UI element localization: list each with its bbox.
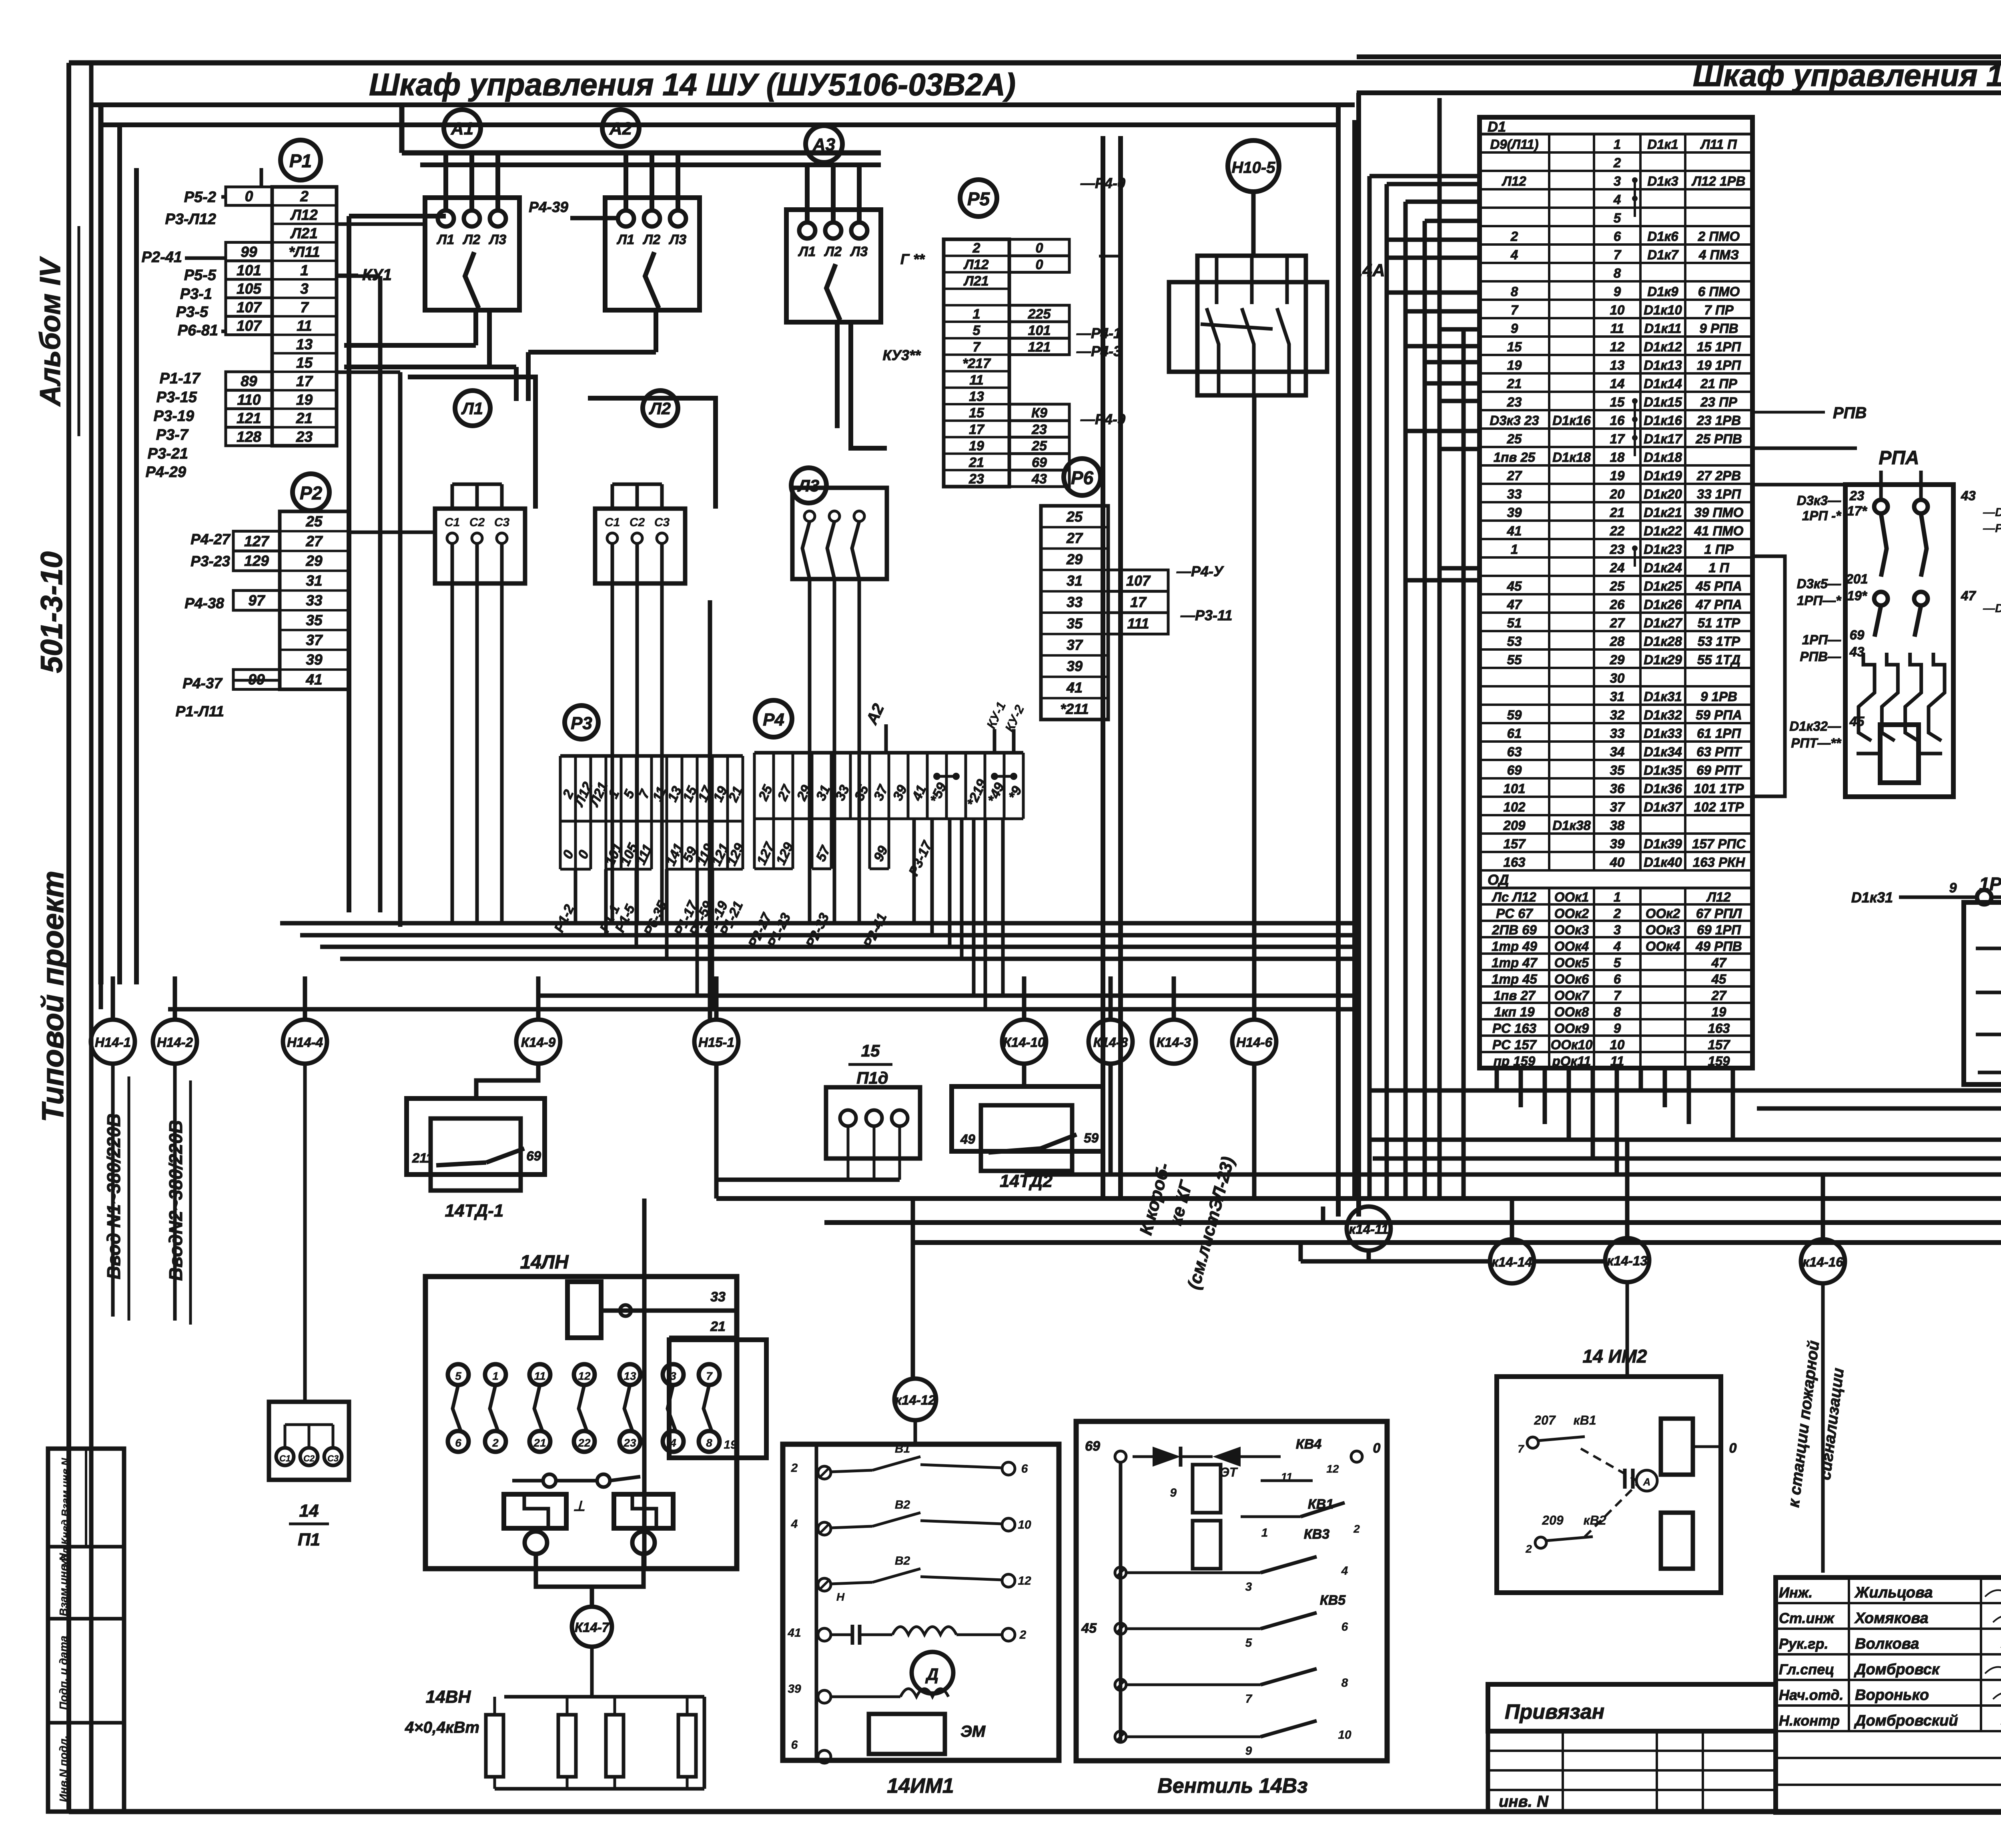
actuator 14IM1 [783, 1420, 1059, 1798]
svg-text:⊥: ⊥ [573, 1499, 585, 1514]
svg-text:РПТ—**: РПТ—** [1791, 736, 1842, 750]
svg-text:25: 25 [1610, 579, 1625, 593]
svg-text:ОД: ОД [1488, 872, 1509, 888]
svg-text:4: 4 [1613, 939, 1621, 954]
svg-text:ООк2: ООк2 [1646, 906, 1680, 921]
svg-text:15: 15 [296, 355, 313, 371]
svg-text:D1к34: D1к34 [1644, 744, 1682, 759]
svg-text:Ст.инж: Ст.инж [1779, 1610, 1835, 1626]
svg-text:19: 19 [1507, 358, 1522, 373]
lamp panel 14LN [425, 1199, 766, 1607]
svg-text:1: 1 [492, 1370, 499, 1382]
svg-text:Л11 П: Л11 П [1700, 137, 1737, 152]
svg-text:14ЛН: 14ЛН [520, 1252, 569, 1273]
svg-text:КВ3: КВ3 [1304, 1527, 1329, 1542]
svg-text:—D3к9: —D3к9 [1983, 506, 2001, 519]
svg-text:19: 19 [1610, 468, 1625, 483]
svg-text:69 РПТ: 69 РПТ [1696, 763, 1742, 778]
svg-text:Л1: Л1 [798, 244, 816, 259]
svg-text:33: 33 [1610, 726, 1625, 741]
svg-text:D1к24: D1к24 [1644, 560, 1682, 575]
svg-text:27: 27 [1066, 530, 1083, 546]
svg-text:1кп 19: 1кп 19 [1494, 1004, 1535, 1019]
connector P2 terminal table [233, 511, 349, 689]
svg-text:Р5-5: Р5-5 [184, 267, 217, 284]
svg-text:99: 99 [241, 244, 257, 260]
valve unit Ventil 14Vz [1076, 1421, 1387, 1798]
svg-text:19: 19 [969, 439, 984, 454]
svg-text:39: 39 [1610, 836, 1625, 851]
svg-text:61 1РП: 61 1РП [1697, 726, 1741, 741]
svg-text:К14-7: К14-7 [575, 1620, 610, 1635]
svg-text:21: 21 [968, 455, 984, 470]
svg-text:6: 6 [1614, 972, 1621, 986]
svg-text:207: 207 [1534, 1413, 1556, 1427]
svg-text:КУ3**: КУ3** [882, 347, 921, 363]
svg-text:51 1ТР: 51 1ТР [1698, 615, 1740, 630]
svg-text:Инж.: Инж. [1779, 1584, 1813, 1601]
svg-text:Н: Н [836, 1591, 845, 1603]
svg-text:ООк1: ООк1 [1554, 890, 1589, 904]
svg-text:*Л11: *Л11 [289, 244, 320, 260]
svg-text:Р3-Л12: Р3-Л12 [165, 211, 216, 228]
svg-text:12: 12 [1326, 1463, 1339, 1475]
svg-text:РПВ: РПВ [1833, 404, 1867, 422]
svg-text:55: 55 [1507, 652, 1522, 667]
svg-text:Привязан: Привязан [1505, 1700, 1604, 1724]
svg-text:157: 157 [1708, 1037, 1730, 1052]
svg-text:1 П: 1 П [1708, 560, 1730, 575]
svg-text:15: 15 [1610, 395, 1625, 409]
svg-text:36: 36 [1610, 781, 1625, 796]
svg-text:20: 20 [1610, 487, 1625, 501]
ammeter А2 [602, 110, 639, 146]
svg-text:С2: С2 [303, 1453, 315, 1463]
svg-text:7: 7 [300, 299, 309, 315]
svg-text:С2: С2 [469, 516, 485, 529]
svg-text:10: 10 [1610, 1037, 1625, 1052]
terminal Н14-1 [91, 1020, 135, 1064]
svg-text:D1к37: D1к37 [1644, 800, 1682, 814]
svg-text:1тр 49: 1тр 49 [1492, 939, 1537, 954]
svg-text:4: 4 [670, 1437, 676, 1449]
svg-text:D1к26: D1к26 [1644, 597, 1682, 612]
svg-text:С1: С1 [279, 1453, 291, 1463]
svg-text:Л12 1РВ: Л12 1РВ [1692, 174, 1746, 188]
svg-text:Л21: Л21 [290, 225, 318, 242]
svg-text:17*: 17* [1847, 503, 1868, 518]
svg-text:37: 37 [306, 632, 323, 648]
svg-text:—D1к25: —D1к25 [1983, 602, 2001, 615]
svg-text:107: 107 [237, 318, 262, 334]
svg-text:39: 39 [788, 1682, 801, 1696]
svg-text:Л2: Л2 [824, 244, 842, 259]
svg-text:31: 31 [1067, 573, 1083, 589]
svg-text:Р3-7: Р3-7 [156, 427, 189, 443]
svg-text:2: 2 [1019, 1628, 1027, 1642]
svg-text:РПА: РПА [1879, 447, 1919, 469]
svg-text:*211: *211 [1060, 701, 1089, 717]
signatures table [1776, 1577, 2001, 1812]
svg-text:21: 21 [533, 1437, 546, 1449]
svg-text:27 2РВ: 27 2РВ [1696, 468, 1741, 483]
svg-text:Хомякова: Хомякова [1854, 1610, 1929, 1627]
svg-text:89: 89 [241, 373, 257, 389]
svg-text:55 1ТД: 55 1ТД [1697, 652, 1740, 667]
svg-text:Вентиль 14Вз: Вентиль 14Вз [1157, 1774, 1307, 1798]
svg-text:3: 3 [1614, 174, 1621, 188]
svg-text:D1к29: D1к29 [1644, 652, 1682, 667]
svg-text:4×0,4кВт: 4×0,4кВт [405, 1719, 479, 1736]
svg-text:Р4-37: Р4-37 [182, 675, 223, 691]
svg-text:D1к28: D1к28 [1644, 634, 1682, 649]
horizontal bus lines [716, 1090, 2001, 1243]
svg-text:С1: С1 [445, 516, 460, 529]
svg-text:4 ПМЗ: 4 ПМЗ [1698, 247, 1739, 262]
actuator 14IM2 [1497, 1282, 1737, 1593]
terminal К14-3 [1152, 1020, 1196, 1064]
svg-text:41: 41 [1507, 523, 1522, 538]
svg-text:D1: D1 [1488, 118, 1506, 135]
privyazan box [1488, 1684, 1776, 1812]
svg-text:31: 31 [306, 573, 322, 589]
svg-text:1: 1 [1614, 890, 1621, 904]
svg-text:27: 27 [1711, 988, 1727, 1003]
svg-text:32: 32 [1610, 708, 1625, 722]
svg-text:2: 2 [1510, 229, 1518, 244]
svg-text:D1к38: D1к38 [1552, 818, 1591, 833]
svg-text:D1к23: D1к23 [1644, 542, 1682, 557]
contactor box under A2 [529, 153, 700, 310]
svg-text:5: 5 [1614, 210, 1621, 225]
svg-text:15 1РП: 15 1РП [1697, 339, 1741, 354]
svg-text:63: 63 [1507, 744, 1522, 759]
connector D1 table [1480, 117, 1752, 1068]
connector P6 circle [1064, 459, 1101, 495]
lamp Л2 [643, 391, 678, 426]
svg-text:1: 1 [300, 262, 309, 279]
svg-text:110: 110 [237, 391, 261, 408]
svg-text:7 ПР: 7 ПР [1704, 303, 1734, 317]
svg-text:13: 13 [1610, 358, 1625, 373]
svg-text:КВ5: КВ5 [1320, 1593, 1346, 1608]
terminal block 14/P1 [269, 1064, 349, 1549]
svg-text:19: 19 [1712, 1004, 1726, 1019]
svg-text:19*: 19* [1847, 588, 1868, 603]
svg-text:0: 0 [1729, 1441, 1737, 1456]
svg-text:Р4: Р4 [763, 710, 784, 730]
svg-text:ООк8: ООк8 [1554, 1004, 1589, 1019]
svg-text:17: 17 [296, 373, 314, 389]
svg-text:к14-13: к14-13 [1607, 1253, 1647, 1268]
svg-text:D1к35: D1к35 [1644, 763, 1682, 778]
svg-text:7: 7 [1518, 1443, 1524, 1455]
wire drops below D1 [1497, 1068, 1733, 1175]
svg-text:9: 9 [1614, 1021, 1621, 1036]
svg-text:D1к39: D1к39 [1644, 836, 1682, 851]
svg-text:Р3: Р3 [571, 714, 592, 733]
svg-text:3: 3 [300, 281, 309, 297]
header cabinet 14ShA [1357, 57, 2001, 93]
svg-text:23: 23 [968, 471, 984, 487]
svg-text:Шкаф управления 14 ША ( ШР 1: Шкаф управления 14 ША ( ШР 1108-67) [1693, 58, 2001, 93]
svg-text:37: 37 [1610, 800, 1625, 814]
svg-text:к14-12: к14-12 [895, 1393, 936, 1407]
terminal N10-5 [1228, 140, 1279, 192]
temperature switch 14TD-1 [407, 1064, 545, 1221]
svg-text:11: 11 [534, 1370, 545, 1382]
terminal Н14-4 [283, 1020, 327, 1064]
svg-text:D3к5—: D3к5— [1797, 576, 1841, 591]
svg-text:—Р4-У: —Р4-У [1176, 563, 1224, 579]
wire A-row feeders [344, 105, 887, 912]
svg-text:2: 2 [492, 1437, 499, 1449]
svg-text:12: 12 [1610, 339, 1625, 354]
svg-text:Д: Д [925, 1665, 938, 1684]
svg-text:39: 39 [1507, 505, 1522, 520]
svg-text:10: 10 [1338, 1728, 1351, 1742]
svg-text:157: 157 [1503, 836, 1526, 851]
svg-text:Типовой проект: Типовой проект [36, 871, 70, 1122]
svg-text:8: 8 [1511, 284, 1518, 299]
svg-text:51: 51 [1507, 615, 1522, 630]
svg-text:157 РПС: 157 РПС [1692, 836, 1746, 851]
svg-text:163: 163 [1708, 1021, 1730, 1036]
svg-text:D3к3 23: D3к3 23 [1490, 413, 1539, 428]
svg-text:3: 3 [1614, 922, 1621, 937]
svg-text:121: 121 [237, 410, 261, 427]
svg-text:43: 43 [1031, 471, 1047, 487]
svg-text:225: 225 [1028, 307, 1051, 322]
wire bundle left of D1 [1369, 98, 1481, 1199]
svg-text:13: 13 [624, 1370, 636, 1382]
svg-text:11: 11 [1610, 321, 1624, 336]
svg-text:2: 2 [300, 188, 309, 204]
svg-text:к14-16: к14-16 [1803, 1255, 1843, 1269]
svg-text:69: 69 [1032, 455, 1047, 470]
terminal К14-9 [516, 1020, 560, 1064]
svg-text:107: 107 [237, 299, 262, 315]
svg-text:35: 35 [306, 612, 323, 628]
svg-text:33: 33 [1067, 594, 1083, 610]
margin note album [34, 226, 79, 436]
svg-text:15: 15 [969, 405, 984, 421]
svg-text:35: 35 [1610, 763, 1625, 778]
svg-text:Н.контр: Н.контр [1779, 1712, 1840, 1729]
connector P6 terminal table [1041, 506, 1168, 720]
svg-text:7: 7 [1614, 247, 1622, 262]
svg-text:Р4-39: Р4-39 [529, 199, 568, 215]
temperature switch 14TD2 [952, 1064, 1103, 1191]
svg-text:33: 33 [306, 592, 323, 609]
svg-text:ООк4: ООк4 [1646, 939, 1680, 954]
svg-text:29: 29 [1066, 551, 1083, 567]
P3 bottom labels [551, 898, 746, 938]
cabinet 14ShU boundary [101, 105, 1355, 1199]
svg-text:1пв 25: 1пв 25 [1494, 450, 1536, 465]
svg-text:РС 163: РС 163 [1492, 1021, 1536, 1036]
svg-text:8: 8 [1341, 1676, 1348, 1690]
svg-text:Н14-1: Н14-1 [95, 1035, 131, 1050]
terminal К14-10 [1002, 1020, 1046, 1064]
svg-text:13: 13 [969, 389, 984, 404]
P5 labels [882, 175, 1125, 427]
svg-text:Н15-1: Н15-1 [698, 1035, 734, 1050]
svg-text:211: 211 [412, 1150, 433, 1165]
time relay 1RV [1851, 874, 2001, 1084]
svg-text:D1к7: D1к7 [1647, 247, 1679, 262]
svg-text:D9(Л11): D9(Л11) [1490, 137, 1538, 152]
svg-text:Домбровск: Домбровск [1854, 1661, 1940, 1678]
svg-text:47: 47 [1711, 955, 1727, 970]
svg-text:15: 15 [861, 1041, 880, 1060]
svg-text:7: 7 [1614, 988, 1622, 1003]
svg-text:11: 11 [1610, 1054, 1624, 1068]
svg-text:1 ПР: 1 ПР [1704, 542, 1734, 557]
svg-text:8: 8 [1614, 1004, 1621, 1019]
svg-text:Р5: Р5 [967, 188, 990, 209]
contactor box under A3 [786, 165, 881, 322]
connector P3 comb [559, 756, 747, 869]
svg-text:*217: *217 [962, 356, 991, 371]
svg-text:11: 11 [969, 373, 983, 388]
svg-text:Л21: Л21 [963, 274, 988, 289]
svg-text:Р2-41: Р2-41 [142, 249, 182, 266]
svg-text:12: 12 [1018, 1574, 1031, 1587]
svg-text:П1д: П1д [856, 1068, 888, 1087]
svg-text:В2: В2 [895, 1498, 910, 1511]
connector P5 circle [960, 180, 997, 216]
svg-text:14ТД-1: 14ТД-1 [445, 1201, 504, 1221]
svg-text:Р3-19: Р3-19 [154, 408, 194, 425]
terminal К14-8 [1089, 1020, 1133, 1064]
svg-text:23 ПР: 23 ПР [1700, 395, 1738, 409]
svg-text:159: 159 [1708, 1054, 1730, 1068]
svg-text:Волкова: Волкова [1855, 1636, 1919, 1652]
svg-text:D1к32—: D1к32— [1789, 719, 1841, 734]
svg-text:19: 19 [296, 391, 313, 408]
svg-text:Л1: Л1 [461, 399, 483, 418]
svg-text:27: 27 [1610, 615, 1625, 630]
svg-text:9: 9 [1614, 284, 1621, 299]
connector P2 circle [293, 474, 329, 511]
stamp column [48, 1449, 124, 1812]
svg-text:41: 41 [305, 671, 322, 688]
svg-text:47: 47 [1961, 588, 1976, 603]
svg-text:—Р3-11: —Р3-11 [1180, 607, 1232, 623]
svg-text:Удл.Кнвд.Взам.инв.N: Удл.Кнвд.Взам.инв.N [59, 1457, 71, 1567]
svg-text:37: 37 [1067, 637, 1083, 653]
svg-text:D1к32: D1к32 [1644, 708, 1682, 722]
terminal Н14-6 [1232, 1020, 1276, 1064]
svg-text:В2: В2 [895, 1554, 910, 1567]
svg-text:16: 16 [1610, 413, 1625, 428]
svg-text:0: 0 [245, 188, 253, 204]
connector P5 terminal table [944, 239, 1069, 487]
svg-text:4: 4 [1510, 247, 1518, 262]
svg-text:41 ПМО: 41 ПМО [1694, 523, 1744, 538]
svg-text:Г **: Г ** [900, 251, 925, 267]
svg-text:40: 40 [1610, 855, 1625, 870]
svg-text:29: 29 [305, 553, 323, 569]
svg-text:Р3-1: Р3-1 [180, 286, 212, 303]
lamp Л1 [455, 391, 490, 426]
svg-text:D1к16: D1к16 [1644, 413, 1682, 428]
svg-text:D1к18: D1к18 [1552, 450, 1591, 465]
svg-text:2: 2 [1613, 906, 1621, 921]
svg-text:D1к9: D1к9 [1647, 284, 1678, 299]
contactor box under A1 [425, 153, 519, 310]
svg-text:7: 7 [973, 339, 981, 355]
svg-text:D1к1: D1к1 [1647, 137, 1678, 152]
svg-text:23: 23 [1849, 488, 1865, 503]
svg-text:D1к25: D1к25 [1644, 579, 1682, 593]
svg-text:45: 45 [1081, 1621, 1097, 1636]
svg-text:67 РПЛ: 67 РПЛ [1696, 906, 1742, 921]
svg-text:—Р4-3: —Р4-3 [1076, 343, 1121, 359]
svg-text:209: 209 [1503, 818, 1526, 833]
svg-text:D1к14: D1к14 [1644, 376, 1682, 391]
svg-text:23: 23 [623, 1437, 636, 1449]
svg-text:7: 7 [706, 1370, 713, 1382]
svg-text:21: 21 [1610, 505, 1625, 520]
svg-text:D1к15: D1к15 [1644, 395, 1682, 409]
terminal K14-12 [894, 1379, 936, 1420]
svg-text:18: 18 [1610, 450, 1625, 465]
svg-text:107: 107 [1126, 573, 1151, 589]
svg-text:К14-10: К14-10 [1003, 1035, 1045, 1050]
svg-text:53 1ТР: 53 1ТР [1698, 634, 1740, 649]
svg-text:39: 39 [1067, 658, 1083, 674]
svg-text:129: 129 [244, 553, 269, 569]
svg-text:D1к33: D1к33 [1644, 726, 1682, 741]
svg-text:К14-9: К14-9 [521, 1035, 556, 1050]
svg-text:127: 127 [244, 533, 270, 549]
svg-text:163 РКН: 163 РКН [1693, 855, 1746, 870]
svg-text:1РП—: 1РП— [1802, 632, 1841, 647]
svg-text:Н14-6: Н14-6 [1236, 1035, 1273, 1050]
svg-text:Подп. и дата: Подп. и дата [57, 1636, 70, 1710]
svg-text:Нач.отд.: Нач.отд. [1779, 1687, 1843, 1703]
svg-text:Инв.N подл.: Инв.N подл. [57, 1736, 70, 1802]
svg-text:А1: А1 [451, 119, 473, 138]
svg-text:К14-3: К14-3 [1157, 1035, 1191, 1050]
wire k14 risers [710, 600, 2001, 1379]
svg-text:102 1ТР: 102 1ТР [1694, 800, 1744, 814]
svg-text:D1к21: D1к21 [1644, 505, 1682, 520]
terminal K14-16 [1801, 1239, 1845, 1283]
svg-text:6: 6 [1021, 1462, 1028, 1475]
breaker 14A [1169, 192, 1385, 1020]
svg-text:Л2: Л2 [642, 232, 660, 247]
svg-text:4: 4 [1341, 1564, 1348, 1577]
resistor bank 14VN [405, 1647, 704, 1789]
svg-text:Р3-5: Р3-5 [176, 304, 209, 321]
svg-text:Р1: Р1 [289, 150, 312, 171]
terminal K14-13 [1605, 1238, 1649, 1282]
svg-text:Р1-17: Р1-17 [160, 370, 201, 387]
svg-text:РПВ—: РПВ— [1800, 649, 1841, 664]
svg-text:D1к27: D1к27 [1644, 615, 1682, 630]
svg-text:7: 7 [1511, 303, 1519, 317]
svg-text:5: 5 [455, 1370, 461, 1382]
relay box under L1 [435, 509, 525, 583]
svg-text:5: 5 [1614, 955, 1621, 970]
svg-text:D1к12: D1к12 [1644, 339, 1682, 354]
svg-text:1тр 45: 1тр 45 [1492, 972, 1537, 986]
svg-text:D1к18: D1к18 [1644, 450, 1682, 465]
svg-text:3: 3 [670, 1370, 676, 1382]
